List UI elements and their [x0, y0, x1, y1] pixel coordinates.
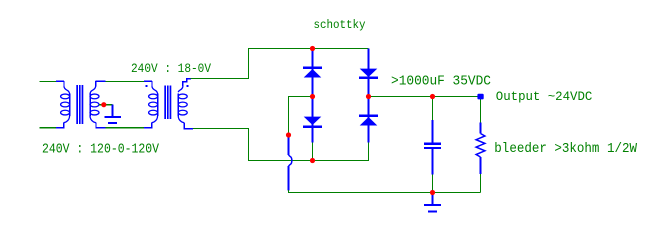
diode D1 [303, 49, 322, 97]
wire cap top [432, 97, 434, 121]
diode D3 [359, 49, 378, 97]
svg-text:240V : 120-0-120V: 240V : 120-0-120V [42, 141, 159, 157]
capacitor C1 [424, 120, 441, 175]
node ground rail [430, 190, 435, 195]
transformer T2 secondary winding [178, 78, 193, 129]
wire center tap [99, 104, 113, 106]
ground G2 [424, 194, 441, 212]
wire secondary bottom to bridge [193, 129, 369, 161]
wire resistor top [480, 97, 482, 123]
wire bottom rail [289, 190, 481, 193]
node mid left [310, 94, 315, 99]
node tap dot [101, 102, 106, 107]
wire mid left link [289, 97, 313, 136]
wire mid right rail [369, 96, 481, 98]
svg-text:Output ~24VDC: Output ~24VDC [496, 89, 593, 104]
wire secondary top to bridge [191, 49, 369, 79]
wire link bottom [106, 127, 145, 129]
transformer T1 secondary winding [90, 81, 106, 128]
transformer T1 primary lead bottom [40, 127, 57, 129]
wire link top [106, 80, 145, 82]
node hop top [286, 132, 291, 137]
wire hop over [288, 135, 290, 155]
transformer T2 primary winding [144, 81, 158, 128]
node top rail [310, 46, 315, 51]
node mid right [366, 94, 371, 99]
wire left column bottom [312, 143, 314, 161]
diode D2 [303, 97, 322, 143]
svg-text:schottky: schottky [314, 18, 366, 32]
svg-text:>1000uF 35VDC: >1000uF 35VDC [391, 73, 491, 89]
node bridge bottom [310, 158, 315, 163]
svg-text:bleeder >3kohm 1/2W: bleeder >3kohm 1/2W [494, 141, 637, 157]
node cap top [430, 94, 435, 99]
node output [477, 94, 483, 100]
diode D4 [359, 97, 378, 143]
polarity dot T2 primary [146, 85, 148, 87]
wire right column bottom [368, 143, 370, 161]
transformer T1 primary lead top [40, 80, 57, 82]
svg-text:240V : 18-0V: 240V : 18-0V [131, 61, 211, 76]
resistor R1 [480, 123, 482, 134]
ground G1 [105, 105, 122, 123]
polarity dot T2 secondary [187, 85, 189, 87]
core T2 [164, 86, 171, 120]
core T1 [76, 85, 83, 124]
wire resistor bottom [480, 174, 482, 193]
transformer T1 primary winding [56, 81, 70, 128]
wire cap bottom [432, 175, 434, 193]
